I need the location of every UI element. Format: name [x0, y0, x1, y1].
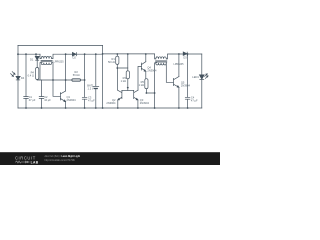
- svg-text:LED1: LED1: [192, 75, 199, 79]
- svg-text:10 µF: 10 µF: [44, 98, 51, 102]
- svg-text:D1: D1: [30, 57, 34, 61]
- svg-text:2N3904: 2N3904: [147, 68, 157, 72]
- svg-text:LAB: LAB: [31, 160, 39, 164]
- svg-text:LPR6235: LPR6235: [174, 63, 185, 66]
- svg-text:50 kΩ: 50 kΩ: [108, 60, 115, 64]
- svg-text:D2: D2: [73, 56, 77, 60]
- svg-text:56 kΩ: 56 kΩ: [73, 73, 80, 77]
- svg-text:0.4 Ω: 0.4 Ω: [28, 74, 34, 78]
- svg-text:2N3904: 2N3904: [106, 101, 116, 105]
- svg-text:D4: D4: [21, 76, 25, 80]
- svg-text:1.2 V: 1.2 V: [88, 86, 94, 90]
- svg-text:47 µF: 47 µF: [88, 98, 95, 102]
- svg-text:2N3904: 2N3904: [181, 84, 191, 88]
- svg-text:D3: D3: [183, 55, 187, 59]
- svg-text:47 µF: 47 µF: [191, 98, 198, 102]
- svg-text:LPR6235: LPR6235: [54, 60, 65, 63]
- svg-text:47 µF: 47 µF: [29, 98, 36, 102]
- svg-text:1 kΩ: 1 kΩ: [139, 83, 144, 87]
- svg-text:1 kΩ: 1 kΩ: [121, 79, 126, 83]
- svg-text:http://circuitlab.com/c/7473fb: http://circuitlab.com/c/7473fb: [45, 158, 76, 162]
- svg-text:2N3904: 2N3904: [140, 101, 150, 105]
- svg-text:2N3904: 2N3904: [67, 98, 77, 102]
